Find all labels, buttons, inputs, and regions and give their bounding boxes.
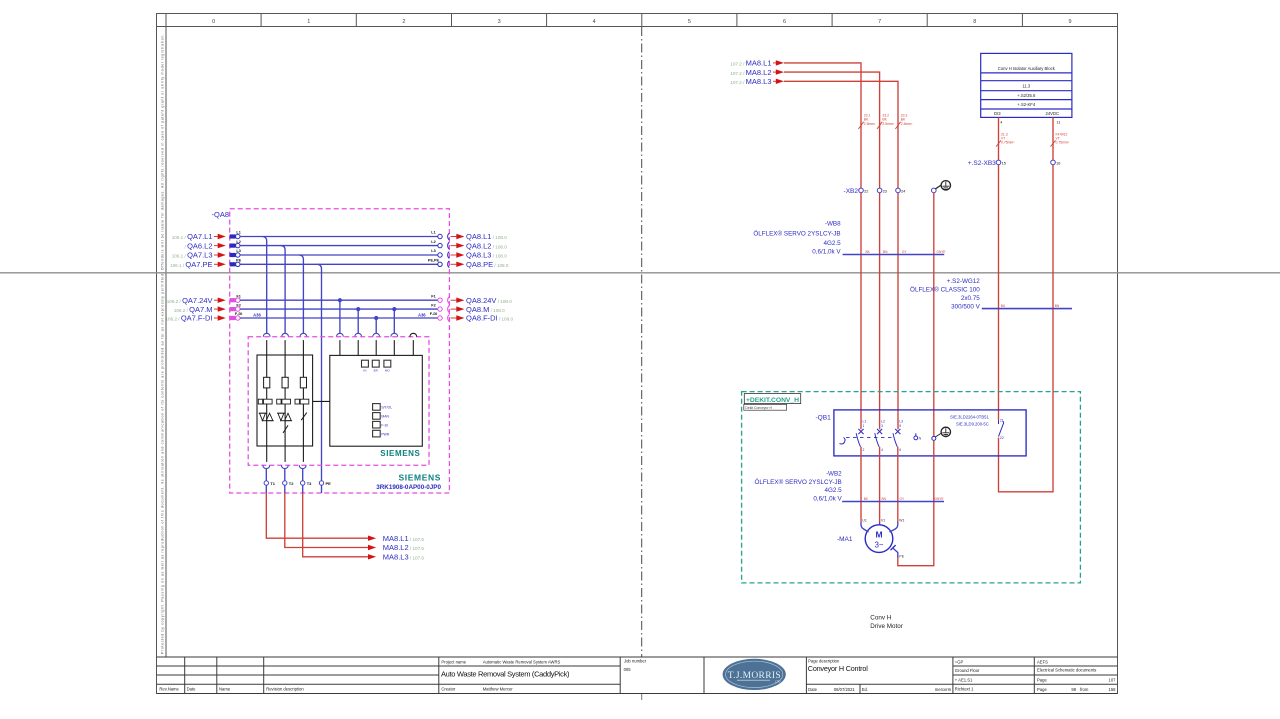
svg-text:PE: PE: [236, 259, 242, 263]
svg-text:PE,PE: PE,PE: [428, 259, 440, 263]
svg-text:11.3: 11.3: [1022, 84, 1031, 89]
svg-text:3RK1908-0AP00-0JP0: 3RK1908-0AP00-0JP0: [376, 484, 441, 491]
indicator square MAN: [373, 413, 381, 420]
svg-text:Date: Date: [808, 687, 818, 692]
device exit arc T1: [263, 465, 270, 468]
wire MA8.L1 to arrow: [266, 493, 368, 538]
wire below terminal T2: [284, 485, 286, 493]
svg-text:158: 158: [1109, 687, 1117, 692]
svg-text:Creator: Creator: [441, 687, 456, 692]
svg-text:Auto Waste Removal System (Cad: Auto Waste Removal System (CaddyPick): [441, 669, 570, 678]
svg-text:T2: T2: [289, 481, 294, 486]
svg-text:QA8.L1 / 108.0: QA8.L1 / 108.0: [466, 232, 507, 241]
svg-text:107: 107: [1109, 678, 1117, 683]
svg-text:11: 11: [1057, 120, 1061, 124]
terminal XB2:23: [877, 188, 882, 193]
wire module link: [313, 400, 330, 402]
svg-text:4G2.5: 4G2.5: [825, 487, 843, 494]
wire QA8.24V output arrow: [438, 298, 442, 302]
svg-text:LTD: LTD: [775, 680, 781, 684]
svg-text:Matthew Mercer: Matthew Mercer: [483, 687, 514, 692]
svg-text:BN: BN: [882, 497, 887, 501]
contact block channel 3: [300, 399, 309, 404]
wire T1 stub: [265, 468, 267, 480]
svg-text:ÖLFLEX® SERVO 2YSLCY-JB: ÖLFLEX® SERVO 2YSLCY-JB: [754, 478, 841, 486]
wire PE below QB1: [898, 440, 934, 565]
device entry arc 5: [410, 333, 417, 336]
svg-text:QA8.F-DI / 108.0: QA8.F-DI / 108.0: [466, 314, 513, 323]
terminal T2: [283, 481, 287, 485]
wire MA8.L1 run: [784, 63, 861, 429]
device entry arc: [282, 333, 289, 336]
wire QA8.L1 branch down: [262, 237, 267, 334]
junction dot: [392, 307, 396, 311]
svg-text:L2: L2: [236, 240, 240, 244]
device exit arc T2: [281, 465, 288, 468]
switch pole PE: [932, 436, 936, 440]
svg-text:106.1 / QA7.L3: 106.1 / QA7.L3: [172, 251, 213, 260]
wire QA8.24V row: [240, 299, 438, 301]
device entry arc: [355, 333, 362, 336]
device entry arc: [373, 333, 380, 336]
svg-text:4G2.5: 4G2.5: [823, 240, 841, 247]
svg-text:V1: V1: [881, 518, 885, 522]
wire phase to motor: [879, 447, 881, 522]
device entry arc: [300, 333, 307, 336]
wire phase channel 1: [266, 340, 268, 462]
svg-text:PWR: PWR: [381, 432, 389, 436]
svg-text:-MA1: -MA1: [837, 536, 853, 543]
svg-text:F1: F1: [236, 294, 240, 298]
svg-text:Richtext 1: Richtext 1: [955, 687, 974, 692]
terminal XB2 PE: [932, 188, 937, 193]
svg-text:0.75mm²: 0.75mm²: [1056, 141, 1070, 145]
svg-text:W1: W1: [899, 518, 904, 522]
terminal XB3:15: [996, 160, 1001, 165]
block Conv H Isolator Auxiliary Block: [981, 53, 1072, 117]
thyristor pair channel 1: [259, 413, 274, 421]
motor pin V1: [879, 522, 881, 525]
wire control stub: [357, 340, 359, 355]
device exit arc T3: [299, 465, 306, 468]
svg-text:Job number: Job number: [624, 659, 647, 664]
svg-text:8: 8: [973, 19, 976, 25]
svg-text:106.2 / QA7.F-DI: 106.2 / QA7.F-DI: [166, 314, 213, 323]
cable WB2: [754, 471, 842, 503]
svg-text:4: 4: [593, 19, 596, 25]
ground symbol at XB2: [935, 181, 950, 190]
svg-text:QA8.M / 108.0: QA8.M / 108.0: [466, 305, 505, 314]
motor pin W1: [890, 522, 898, 532]
wire marker 21.3: [996, 140, 1001, 146]
svg-text:7: 7: [878, 19, 881, 25]
wire T3 stub: [302, 468, 304, 480]
svg-text:Conv H Isolator Auxiliary Bloc: Conv H Isolator Auxiliary Block: [998, 66, 1056, 71]
wire below terminal T3: [302, 485, 304, 493]
component QA8 enclosure (dashed): [230, 209, 450, 493]
svg-text:-QA8: -QA8: [212, 210, 230, 219]
svg-text:15: 15: [1002, 161, 1006, 165]
switch pole N: [915, 433, 917, 436]
wire QA8.L2 branch down: [281, 246, 286, 334]
svg-text:2.5mm²: 2.5mm²: [864, 122, 876, 126]
svg-text:Project name: Project name: [441, 659, 466, 664]
svg-text:-WB2: -WB2: [826, 471, 842, 478]
svg-text:MA8.L2 / 107.6: MA8.L2 / 107.6: [383, 543, 425, 552]
svg-text:106.2 / QA7.M: 106.2 / QA7.M: [174, 305, 213, 314]
svg-text:L3: L3: [431, 249, 435, 253]
svg-text:U1: U1: [862, 518, 867, 522]
svg-text:Conv H: Conv H: [870, 615, 891, 622]
svg-text:+.S2-XB3: +.S2-XB3: [968, 160, 996, 167]
wire QA8.L3 output arrow: [438, 253, 442, 257]
motor MA1: [865, 525, 893, 553]
svg-text:1: 1: [863, 424, 865, 428]
svg-text:SIE.3LD9.200-5C: SIE.3LD9.200-5C: [956, 421, 989, 426]
svg-text:F1: F1: [431, 294, 435, 298]
bypass contact channel 3: [301, 413, 307, 421]
svg-text:98: 98: [1071, 687, 1076, 692]
svg-text:Drive Motor: Drive Motor: [870, 623, 903, 630]
svg-text:+DEKIT.CONV_H: +DEKIT.CONV_H: [746, 397, 799, 404]
svg-text:/ QA6.L2: / QA6.L2: [185, 241, 213, 250]
svg-text:300/500 V: 300/500 V: [951, 303, 981, 310]
svg-text:2x0.75: 2x0.75: [961, 295, 980, 302]
isolator switch QB1: [834, 410, 1026, 456]
wire QA8.M output arrow: [438, 307, 442, 311]
svg-text:ÖLFLEX® CLASSIC 100: ÖLFLEX® CLASSIC 100: [910, 286, 980, 294]
svg-text:GNYE: GNYE: [937, 250, 946, 254]
wire control stub: [339, 340, 341, 355]
wire MA8.L3 run: [784, 81, 898, 429]
indicator square MO: [384, 360, 391, 367]
svg-text:F2: F2: [236, 303, 240, 307]
fuse element channel 3: [300, 377, 306, 388]
soft starter inner enclosure (dashed): [248, 337, 429, 466]
svg-text:MO: MO: [385, 368, 390, 372]
terminal XB2:22: [859, 188, 864, 193]
wire marker 23.1: [858, 122, 863, 129]
wire QA8.L1 row: [240, 236, 438, 238]
svg-text:Name: Name: [219, 687, 231, 692]
indicator square F-DI: [373, 421, 381, 428]
cable WB8: [753, 221, 841, 256]
svg-text:Ed.: Ed.: [862, 687, 868, 692]
device entry arc: [263, 333, 270, 336]
wire branch down: [375, 318, 377, 333]
svg-text:BN: BN: [883, 250, 888, 254]
svg-text:0,6/1,0k V: 0,6/1,0k V: [813, 495, 842, 502]
svg-text:2: 2: [402, 19, 405, 25]
svg-text:24VDC: 24VDC: [1046, 111, 1060, 116]
svg-text:A36: A36: [253, 313, 261, 318]
switch linkage: [846, 437, 893, 439]
svg-text:005: 005: [624, 667, 632, 672]
svg-text:L1: L1: [236, 231, 240, 235]
svg-text:IN: IN: [363, 368, 366, 372]
svg-text:6: 6: [899, 448, 901, 452]
svg-text:SIE.3LD2264-0TB51: SIE.3LD2264-0TB51: [950, 414, 989, 419]
wire MA8.L2 run: [784, 72, 880, 429]
svg-text:F2: F2: [431, 303, 435, 307]
junction dot: [356, 307, 360, 311]
svg-text:2.5mm²: 2.5mm²: [901, 122, 913, 126]
wire marker 23.2: [877, 122, 882, 129]
svg-text:MAN: MAN: [381, 415, 389, 419]
svg-text:S/T/OL: S/T/OL: [381, 406, 392, 410]
svg-text:0,6/1,0k V: 0,6/1,0k V: [812, 248, 841, 255]
svg-text:A36: A36: [418, 313, 426, 318]
svg-text:3: 3: [498, 19, 501, 25]
svg-text:GNYE: GNYE: [935, 497, 944, 501]
svg-text:AEFS: AEFS: [1037, 659, 1048, 664]
wire QA8.L3 branch down: [299, 255, 304, 333]
svg-text:PE: PE: [899, 555, 904, 559]
svg-text:Conveyor H Control: Conveyor H Control: [808, 664, 868, 673]
svg-text:1: 1: [307, 19, 310, 25]
svg-text:5: 5: [899, 424, 901, 428]
svg-text:M: M: [875, 529, 882, 539]
svg-text:08/07/2021: 08/07/2021: [834, 687, 856, 692]
svg-text:Protected by copyright. Passin: Protected by copyright. Passing on as we…: [161, 34, 165, 654]
junction dot: [338, 298, 342, 302]
svg-text:F-DI: F-DI: [430, 312, 437, 316]
svg-text:QA8.L2 / 108.0: QA8.L2 / 108.0: [466, 241, 507, 250]
svg-text:SIEMENS: SIEMENS: [399, 473, 441, 483]
terminal T3: [301, 481, 305, 485]
wire branch down: [357, 309, 359, 333]
svg-text:PE: PE: [326, 481, 332, 486]
svg-text:QA8.L3 / 108.0: QA8.L3 / 108.0: [466, 251, 507, 260]
control module U (Siemens 3RK1908): [330, 355, 423, 446]
wire DI3 down: [998, 117, 1000, 419]
svg-text:BK: BK: [866, 250, 871, 254]
svg-text:107.2 / MA8.L1: 107.2 / MA8.L1: [730, 59, 771, 68]
svg-text:2: 2: [863, 448, 865, 452]
indicator square IN: [362, 360, 369, 367]
svg-text:T1: T1: [270, 481, 275, 486]
svg-text:QA8.24V / 108.0: QA8.24V / 108.0: [466, 296, 512, 305]
wire marker KF4/I12: [1051, 140, 1056, 146]
svg-text:BN: BN: [1055, 304, 1060, 308]
power module Q (thyristor block): [257, 355, 313, 446]
switch pole L3: [893, 429, 900, 447]
wire phase channel 2: [284, 340, 286, 462]
wire QA8.L2 row: [240, 245, 438, 247]
svg-text:+.S2/35.6: +.S2/35.6: [1017, 93, 1036, 98]
junction dot: [374, 316, 378, 320]
wire control stub: [375, 340, 377, 355]
svg-text:Page: Page: [1037, 678, 1047, 683]
svg-text:GY: GY: [902, 250, 907, 254]
svg-text:=GP: =GP: [955, 659, 964, 664]
svg-text:Automatic Waste Removal System: Automatic Waste Removal System AWRS: [483, 659, 561, 664]
enclosure DEKIT.CONV_H (dashed): [742, 392, 1081, 583]
wire QA8.L1 output arrow: [438, 234, 442, 238]
svg-text:F-DI: F-DI: [235, 312, 242, 316]
svg-text:BU: BU: [1001, 304, 1006, 308]
wire QA8.M row: [240, 308, 438, 310]
svg-text:from: from: [1080, 687, 1089, 692]
svg-text:T3: T3: [307, 481, 312, 486]
wire phase to motor: [897, 447, 899, 522]
terminal XB3:16: [1051, 160, 1056, 165]
svg-text:MA8.L3 / 107.6: MA8.L3 / 107.6: [383, 553, 425, 562]
svg-text:0: 0: [212, 19, 215, 25]
motor pin U1: [861, 522, 869, 532]
terminal XB2:24: [896, 188, 901, 193]
ground symbol at QB1: [935, 427, 950, 437]
svg-text:107.2 / MA8.L3: 107.2 / MA8.L3: [730, 77, 771, 86]
cable S2-WG12: [910, 278, 981, 311]
wire MA8.L3 to arrow: [303, 493, 369, 557]
svg-text:6: 6: [783, 19, 786, 25]
svg-text:Page description: Page description: [808, 658, 840, 663]
svg-text:+.S2-WG12: +.S2-WG12: [947, 278, 981, 285]
svg-text:22: 22: [1000, 436, 1004, 440]
wire QA8.L2 output arrow: [438, 243, 442, 247]
wire MA8.L2 to arrow: [285, 493, 369, 548]
svg-text:L3: L3: [236, 249, 240, 253]
wire branch down: [339, 300, 341, 333]
motor pin PE: [891, 545, 896, 550]
switch pole L2: [875, 429, 882, 447]
wire below terminal T1: [265, 485, 267, 493]
svg-text:N: N: [919, 437, 922, 441]
device entry arc: [337, 333, 344, 336]
svg-text:BK: BK: [864, 497, 869, 501]
svg-text:106.2 / QA7.24V: 106.2 / QA7.24V: [167, 296, 213, 305]
svg-text:+ AE1.S1: + AE1.S1: [955, 678, 973, 683]
terminal PE: [319, 481, 323, 485]
svg-text:9: 9: [1068, 19, 1071, 25]
switch pole L1: [856, 429, 863, 447]
svg-text:F-DI: F-DI: [381, 423, 388, 427]
svg-text:L1: L1: [431, 231, 435, 235]
wire QA8.PE row: [240, 263, 438, 265]
wire 24VDC down: [999, 117, 1054, 491]
svg-text:106.1 / QA7.L1: 106.1 / QA7.L1: [172, 232, 213, 241]
wire phase to motor: [860, 447, 862, 522]
wire branch down: [393, 309, 395, 333]
indicator square PWR: [373, 430, 381, 437]
svg-text:24: 24: [901, 189, 905, 193]
svg-text:QA8.PE / 108.0: QA8.PE / 108.0: [466, 260, 509, 269]
svg-text:ER: ER: [374, 368, 379, 372]
indicator square S/T/OL: [373, 404, 381, 411]
svg-text:-QB1: -QB1: [816, 415, 832, 422]
terminal T1: [264, 481, 268, 485]
fuse element channel 2: [282, 377, 288, 388]
svg-text:Revision description: Revision description: [266, 687, 304, 692]
svg-text:4: 4: [881, 448, 883, 452]
wire T2 stub: [284, 468, 286, 480]
contact channel 2 lower: [283, 425, 288, 433]
switch actuator: [840, 438, 846, 445]
svg-text:SIEMENS: SIEMENS: [380, 449, 420, 458]
wire QA8.F-DI row: [240, 317, 438, 319]
svg-text:5: 5: [688, 19, 691, 25]
svg-text:DI3: DI3: [994, 111, 1001, 116]
svg-text:23: 23: [883, 189, 887, 193]
device entry arc: [391, 333, 398, 336]
svg-text:22: 22: [864, 189, 868, 193]
svg-text:3: 3: [881, 424, 883, 428]
label +DEKIT.CONV_H: [744, 394, 800, 404]
svg-text:Rev.Name: Rev.Name: [159, 687, 179, 692]
wire QA8.F-DI output arrow: [438, 316, 442, 320]
wire marker 23.3: [895, 122, 900, 129]
svg-text:3~: 3~: [874, 540, 883, 549]
svg-text:GY: GY: [900, 497, 905, 501]
svg-text:106.1 / QA7.PE: 106.1 / QA7.PE: [170, 260, 212, 269]
wire control stub: [412, 340, 414, 355]
svg-text:2.5mm²: 2.5mm²: [882, 122, 894, 126]
svg-text:Dekit Conveyor H: Dekit Conveyor H: [745, 406, 772, 410]
contact block channel 1: [264, 399, 273, 404]
wire QA8.L3 row: [240, 254, 438, 256]
wire XB2 PE down: [933, 193, 935, 437]
svg-text:Date: Date: [187, 687, 197, 692]
wire QA8.PE output arrow: [438, 262, 442, 266]
wire control stub: [393, 340, 395, 355]
svg-text:L2: L2: [431, 240, 435, 244]
svg-text:ÖLFLEX® SERVO 2YSLCY-JB: ÖLFLEX® SERVO 2YSLCY-JB: [753, 230, 840, 238]
svg-text:MA8.L1 / 107.6: MA8.L1 / 107.6: [383, 534, 425, 543]
fuse element channel 1: [264, 377, 270, 388]
indicator square ER: [372, 360, 379, 367]
svg-text:-WB8: -WB8: [825, 221, 841, 228]
svg-text:107.2 / MA8.L2: 107.2 / MA8.L2: [730, 68, 771, 77]
svg-text:-XB2: -XB2: [844, 188, 859, 195]
svg-text:0.75mm²: 0.75mm²: [1001, 141, 1015, 145]
svg-text:Ground Floor: Ground Floor: [955, 668, 980, 673]
wire PE vertical: [317, 264, 322, 481]
svg-text:Page: Page: [1037, 687, 1047, 692]
svg-text:mercerm: mercerm: [935, 687, 952, 692]
svg-text:T.J.MORRIS: T.J.MORRIS: [728, 671, 781, 681]
wire phase channel 3: [302, 340, 304, 462]
svg-text:16: 16: [1056, 161, 1060, 165]
svg-text:4: 4: [1000, 120, 1002, 124]
svg-text:+.S2-KF4: +.S2-KF4: [1017, 102, 1035, 107]
contact block channel 2: [282, 399, 291, 404]
thyristor pair channel 2: [277, 413, 292, 421]
wire below terminal PE: [321, 485, 323, 493]
svg-text:Electrical Schematic documents: Electrical Schematic documents: [1037, 667, 1096, 672]
